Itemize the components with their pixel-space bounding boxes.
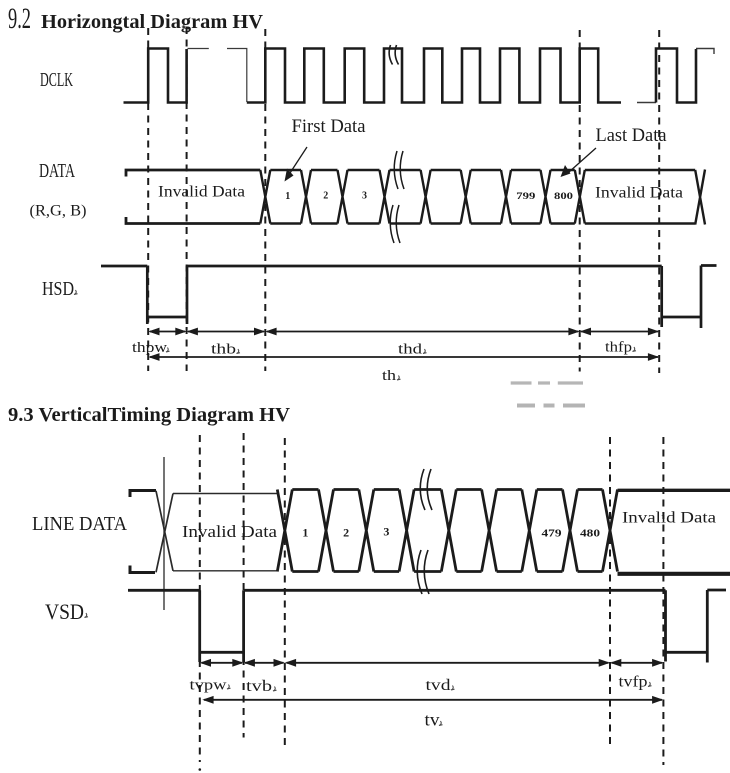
svg-text:800: 800: [554, 191, 574, 201]
cell 2: [311, 170, 348, 224]
dashed guide line A x=148: [147, 28, 149, 371]
cell 1: [292, 490, 333, 572]
watermark row 1: [511, 381, 583, 384]
cell 6: [497, 490, 537, 572]
svg-text:2: 2: [323, 191, 328, 202]
svg-text:479: 479: [542, 528, 563, 540]
svg-text:VSD: VSD: [45, 599, 84, 624]
thin vertical scan line through LINE DATA crossover: [163, 457, 165, 610]
svg-text:2: 2: [343, 526, 349, 540]
svg-text:Horizongtal Diagram HV: Horizongtal Diagram HV: [41, 11, 264, 33]
dashed guide line C x=265: [264, 29, 266, 371]
th dimension arrow: [148, 353, 659, 361]
tvfp dimension arrow: [610, 659, 663, 667]
svg-text:Invalid Data: Invalid Data: [182, 522, 278, 541]
watermark row 2: [517, 404, 585, 408]
svg-text:Invalid Data: Invalid Data: [158, 184, 245, 201]
cell 4 (break cell): [414, 490, 456, 572]
svg-text:tv: tv: [425, 710, 440, 730]
svg-text:DCLK: DCLK: [40, 69, 73, 91]
thb dimension arrow: [187, 328, 266, 336]
svg-text:thd: thd: [398, 342, 423, 358]
LINE DATA bus: left stub: [130, 491, 156, 573]
svg-text:Invalid Data: Invalid Data: [595, 185, 683, 202]
cell 1: [270, 170, 311, 224]
tv dimension arrow: [202, 696, 663, 704]
cell 480: [578, 490, 618, 572]
DCLK break squiggle: [389, 45, 398, 65]
svg-text:thfp: thfp: [605, 340, 632, 356]
dashed guide line J x=663.4: [662, 437, 664, 765]
DCLK wire: main thick trace: [124, 49, 187, 103]
cell 5: [431, 170, 471, 224]
svg-text:Last Data: Last Data: [596, 126, 667, 146]
dashed guide line H x=284.8: [284, 438, 286, 745]
svg-text:tvpw: tvpw: [190, 678, 227, 694]
dashed guide line G x=243.6: [243, 433, 245, 738]
thd dimension arrow: [265, 328, 579, 336]
cell 6: [471, 170, 511, 224]
tvd dimension arrow: [285, 659, 610, 667]
cell 5: [456, 490, 496, 572]
cell 3: [374, 490, 414, 572]
crossover X at 265.5: [260, 170, 270, 224]
VSD wire: [128, 590, 726, 663]
cell 4 (break cell): [390, 170, 431, 224]
DCLK wire: last pulses: [656, 49, 696, 103]
First Data arrow: [290, 147, 307, 173]
right invalid region: [585, 170, 705, 225]
HSD wire: [101, 266, 717, 329]
svg-text:LINE DATA: LINE DATA: [32, 513, 128, 535]
svg-text:DATA: DATA: [39, 161, 75, 182]
svg-text:th: th: [382, 368, 397, 384]
svg-text:480: 480: [580, 528, 601, 540]
svg-text:thpw: thpw: [132, 340, 167, 356]
svg-text:1: 1: [302, 526, 308, 540]
DATA bus: data cells: [260, 170, 705, 225]
tvb dimension arrow: [244, 659, 285, 667]
cell 479: [537, 490, 578, 572]
LINE DATA bus: left crossover X: [156, 491, 173, 573]
DCLK wire: thin low segment after gap: [637, 102, 656, 104]
Last Data arrow: [569, 148, 596, 172]
dashed guide line D x=580: [579, 30, 581, 372]
dashed guide line I x=610: [609, 437, 611, 745]
svg-text:1: 1: [285, 191, 290, 202]
LINE DATA cells: [277, 490, 617, 572]
dashed guide line F x=200: [199, 435, 201, 762]
cell 3: [348, 170, 390, 224]
svg-text:(R,G, B): (R,G, B): [30, 203, 87, 220]
cell 800: [551, 170, 585, 224]
dashed guide line B x=187: [186, 27, 188, 371]
DCLK wire: thin tail with hook: [696, 49, 714, 55]
cell 2: [334, 490, 374, 572]
svg-text:thb: thb: [211, 342, 236, 358]
svg-text:3: 3: [362, 191, 367, 202]
DATA bus: left invalid region: [126, 170, 260, 224]
tiny scan speck near line B top: [183, 26, 186, 29]
DATA break squiggle top: [394, 151, 404, 189]
DCLK wire: clock pulses: [247, 49, 621, 103]
svg-text:First Data: First Data: [292, 117, 366, 137]
LINE DATA break squiggle top: [420, 469, 432, 510]
tvpw dimension arrow: [200, 659, 244, 667]
svg-text:tvd: tvd: [426, 677, 451, 694]
svg-text:799: 799: [516, 191, 536, 201]
DCLK wire: thin high segment with gap: [188, 49, 247, 103]
LINE DATA bus: invalid cell thin borders: [173, 494, 277, 571]
svg-text:9.3 VerticalTiming Diagram HV: 9.3 VerticalTiming Diagram HV: [8, 404, 291, 426]
svg-text:tvb: tvb: [246, 678, 272, 695]
svg-text:9.2: 9.2: [8, 2, 31, 35]
dashed guide line E x=659: [658, 30, 660, 373]
svg-text:3: 3: [383, 525, 389, 539]
thpw dimension arrow: [148, 328, 186, 336]
svg-text:tvfp: tvfp: [619, 674, 648, 691]
svg-text:Invalid Data: Invalid Data: [622, 510, 716, 527]
DATA break squiggle bottom: [390, 205, 400, 243]
cell 799: [511, 170, 551, 224]
LINE DATA bus: right invalid region thick lines: [618, 489, 730, 492]
thfp dimension arrow: [580, 328, 660, 336]
crossover X at 284.8: [277, 490, 292, 572]
LINE DATA break squiggle bottom: [417, 550, 429, 594]
svg-text:HSD: HSD: [42, 278, 74, 300]
